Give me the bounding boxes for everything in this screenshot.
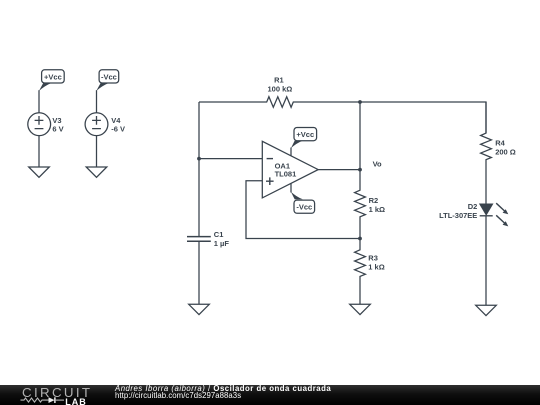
op-amp OA1 — [262, 141, 318, 198]
wire LED to ground — [485, 216, 487, 305]
CircuitLab logo resistor+diode glyph — [20, 397, 64, 405]
resistor R2 — [355, 102, 385, 239]
svg-text:100 kΩ: 100 kΩ — [268, 85, 293, 94]
+Vcc flag on V3 — [39, 70, 64, 91]
ground under V3 — [29, 167, 50, 177]
svg-text:-Vcc: -Vcc — [101, 72, 117, 81]
node inverting input junction — [197, 157, 201, 161]
CircuitLab logo text LAB — [65, 397, 87, 405]
svg-text:-Vcc: -Vcc — [296, 203, 312, 212]
footer author/title line — [115, 385, 331, 400]
wire left vertical to C1 — [198, 159, 200, 237]
svg-text:LTL-307EE: LTL-307EE — [439, 211, 477, 220]
+Vcc flag on op-amp — [291, 128, 317, 157]
svg-text:Vo: Vo — [373, 160, 382, 169]
node top junction — [358, 100, 362, 104]
svg-text:1 kΩ: 1 kΩ — [369, 205, 385, 214]
resistor R4 — [481, 102, 516, 204]
wire top to R4 — [360, 102, 486, 133]
wire V3 flag to source — [38, 90, 40, 113]
voltage source V4 — [85, 113, 125, 136]
ground under R3 — [350, 304, 371, 314]
wire V4 flag to source — [96, 90, 98, 113]
svg-text:C1: C1 — [214, 230, 224, 239]
svg-text:R1: R1 — [274, 76, 284, 85]
ground under LED — [476, 305, 497, 315]
wire V3 to ground — [38, 135, 40, 167]
svg-text:+Vcc: +Vcc — [296, 130, 314, 139]
svg-text:200 Ω: 200 Ω — [495, 148, 516, 157]
-Vcc flag on op-amp — [291, 183, 315, 213]
ground under V4 — [86, 167, 107, 177]
wire C1 to ground — [198, 241, 200, 304]
capacitor C1 — [187, 230, 229, 248]
svg-text:TL081: TL081 — [275, 170, 297, 179]
resistor R3 — [355, 239, 385, 305]
wire top-left vertical — [198, 102, 200, 159]
voltage source V3 — [28, 113, 64, 136]
-Vcc flag on V4 — [96, 70, 118, 91]
footer bar — [0, 385, 540, 405]
LED D2 — [439, 202, 508, 226]
svg-text:1 kΩ: 1 kΩ — [368, 263, 384, 272]
svg-text:R2: R2 — [369, 196, 379, 205]
wire output — [318, 169, 360, 171]
wire non-inverting input path — [246, 181, 360, 239]
svg-text:R3: R3 — [368, 254, 378, 263]
wire V4 to ground — [96, 135, 98, 167]
svg-text:1 µF: 1 µF — [214, 239, 230, 248]
CircuitLab logo text CIRCUIT — [22, 385, 92, 400]
svg-text:R4: R4 — [495, 139, 505, 148]
node output junction — [358, 168, 362, 172]
wire inverting input — [199, 158, 262, 160]
svg-text:-6 V: -6 V — [111, 124, 125, 133]
svg-text:+Vcc: +Vcc — [44, 72, 62, 81]
svg-text:6 V: 6 V — [52, 124, 63, 133]
ground under C1 — [189, 304, 210, 314]
resistor R1 — [199, 76, 360, 108]
node feedback junction — [358, 237, 362, 241]
